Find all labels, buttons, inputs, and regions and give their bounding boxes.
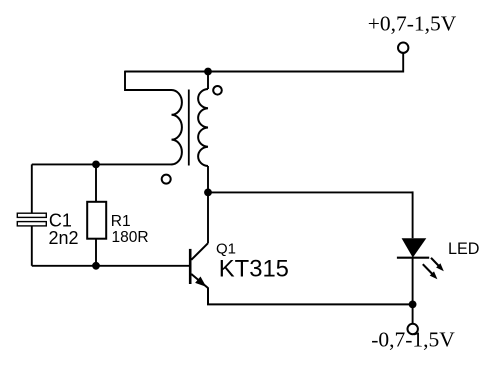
wire: top supply rail [125,53,403,72]
node: upper-left junction [92,161,100,169]
transformer core [188,90,190,166]
wire: negative terminal lead [412,304,414,323]
terminal: positive supply [398,43,408,53]
wire: step down to primary top [125,71,172,90]
transformer T1 primary winding [172,90,182,164]
phase dot: primary [162,175,171,184]
wire: R1 bottom lead [95,239,97,266]
svg-text:+0,7-1,5V: +0,7-1,5V [368,11,457,35]
wire: C1 top lead [31,164,33,213]
wire: primary bottom rail [32,163,173,165]
node: top junction [204,68,212,76]
svg-text:2n2: 2n2 [49,228,79,248]
svg-text:180R: 180R [112,229,149,246]
LED D1 [397,238,429,258]
wire: bottom rail to base [32,265,190,267]
svg-text:-0,7-1,5V: -0,7-1,5V [371,327,455,351]
capacitor C1 [17,213,46,226]
phase dot: secondary [213,86,222,95]
resistor R1 [87,202,106,239]
transistor Q1 [190,243,208,288]
wire: LED cathode to bottom rail [412,258,414,305]
wire: secondary bottom lead [207,166,209,192]
node: lower-left junction [92,262,100,270]
node: collector junction [204,189,212,197]
wire: secondary top lead [207,72,209,90]
svg-text:KT315: KT315 [219,255,289,282]
wire: collector lead [207,192,209,243]
wire: collector junction to LED anode [208,191,413,193]
transformer T1 secondary winding [198,89,208,166]
wire: LED anode drop [412,191,414,238]
wire: emitter to bottom rail [208,288,413,305]
terminal: negative supply [408,324,418,334]
svg-text:R1: R1 [111,213,131,230]
wire: C1 bottom lead [31,226,33,266]
LED arrow 1 [431,258,444,271]
node: bottom junction [409,301,417,309]
svg-text:LED: LED [448,240,480,258]
wire: R1 top lead [95,164,97,201]
LED arrow 2 [423,264,438,279]
